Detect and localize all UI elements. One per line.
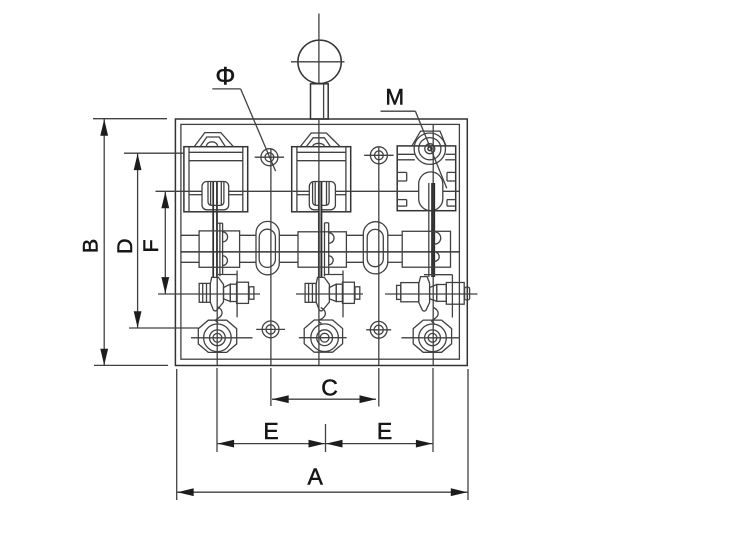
label D: [113, 238, 137, 254]
svg-text:C: C: [321, 375, 338, 401]
pole 2 contact body: [292, 147, 351, 212]
dimension line D: [134, 153, 142, 328]
bottom terminal pole 2: [299, 320, 347, 352]
cam follower arcs pole 1: [223, 232, 228, 266]
handle stem inner line: [323, 84, 325, 119]
dimension line B: [100, 119, 108, 365]
pole 3 slot stadium: [419, 172, 443, 211]
pole 1 centerline: [216, 182, 218, 366]
pole 3 body plate lines: [397, 154, 456, 160]
svg-text:E: E: [377, 418, 392, 444]
pole 3 inner slot: [429, 183, 435, 277]
handle ball horizontal centerline: [291, 61, 345, 63]
dimension line E right: [326, 440, 433, 448]
label E right: [377, 418, 392, 444]
pole 2 step line: [325, 223, 329, 276]
label B: [78, 239, 102, 253]
extension line E right: [432, 368, 434, 452]
extension line F top: [156, 190, 460, 192]
svg-text:Φ: Φ: [215, 62, 235, 90]
dimension line F: [161, 192, 169, 294]
hole column line right: [378, 147, 380, 365]
svg-text:B: B: [78, 239, 102, 253]
pole 1 contact body: [184, 147, 248, 212]
pole 2 centerline: [318, 119, 320, 365]
pole 3 body notch upper-left: [397, 172, 407, 181]
pole 3 body notch lower-right: [447, 200, 456, 207]
handle stem: [311, 84, 329, 119]
extension line D bottom: [129, 327, 198, 329]
extension line E left: [216, 368, 218, 452]
pole 1 step line: [217, 223, 223, 276]
bearing bracket left: [256, 221, 279, 274]
handle ball: [298, 40, 341, 83]
lead squiggle pole 3: [432, 308, 438, 324]
label A: [308, 464, 324, 490]
cam follower arcs pole 3: [435, 232, 441, 262]
hole column line left: [270, 150, 272, 366]
pole 3 body: [397, 146, 456, 211]
extension line A right: [467, 369, 469, 500]
extension line B top: [93, 118, 167, 120]
extension tick E middle: [325, 424, 327, 452]
extension line C left: [270, 368, 272, 406]
svg-text:D: D: [113, 238, 137, 254]
extension line D top: [124, 152, 184, 154]
pole 1 contact slot: [202, 182, 229, 210]
label Phi: [215, 62, 235, 90]
svg-text:E: E: [263, 418, 278, 444]
pole 2 contact slot: [309, 182, 335, 210]
pole 3 body notch upper-right: [447, 172, 456, 181]
bottom terminal pole 1: [191, 320, 253, 352]
bearing bracket right: [363, 222, 388, 274]
pole 3 body notch lower-left: [397, 200, 407, 207]
mounting hole bottom-left: [256, 321, 285, 338]
pole 1 blade: [213, 182, 217, 277]
dimension line A: [177, 488, 468, 496]
extension line A left: [176, 369, 178, 500]
cam block pole 3: [402, 231, 450, 267]
shaft rod: [181, 235, 402, 262]
enclosure outer frame: [175, 119, 467, 366]
label M: [385, 85, 404, 110]
handle ball vertical centerline: [318, 14, 320, 84]
label F: [139, 239, 163, 252]
terminal bolt pole 1: [199, 271, 254, 318]
mounting hole top-right: [364, 147, 393, 164]
leader line M: [381, 111, 447, 188]
pole 2 blade: [319, 182, 322, 277]
label C: [321, 375, 338, 401]
cam block pole 1: [199, 231, 240, 267]
svg-text:M: M: [385, 85, 404, 110]
leader line Phi: [212, 89, 275, 171]
lead squiggle pole 2: [319, 308, 325, 324]
cam follower arcs pole 2: [329, 233, 334, 265]
bottom terminal pole 3: [401, 320, 459, 352]
dimension line E left: [217, 440, 325, 448]
contact wing lines: [189, 194, 346, 196]
pole 2 clamp cap: [300, 133, 340, 147]
label E left: [263, 418, 278, 444]
mounting hole top-left: [255, 149, 284, 166]
terminal bolt pole 2: [305, 271, 360, 318]
pole 3 hex nut: [412, 131, 446, 146]
shaft centerline: [181, 251, 459, 253]
extension line B bottom: [94, 364, 168, 366]
svg-text:F: F: [139, 239, 163, 252]
terminal bolt pole 3: [397, 275, 470, 318]
cam block pole 2: [298, 232, 346, 267]
extension line C right: [378, 368, 380, 407]
lead squiggle pole 1: [216, 307, 222, 323]
terminal bolt centerlines: [158, 293, 478, 295]
pole 3 centerline: [432, 125, 434, 366]
dimension line C: [272, 395, 376, 403]
mounting hole bottom-right: [366, 321, 391, 338]
enclosure inner frame: [181, 124, 460, 359]
pole 3 nut circles: [414, 133, 445, 164]
pole 1 clamp cap: [194, 133, 233, 147]
svg-text:A: A: [308, 464, 324, 490]
